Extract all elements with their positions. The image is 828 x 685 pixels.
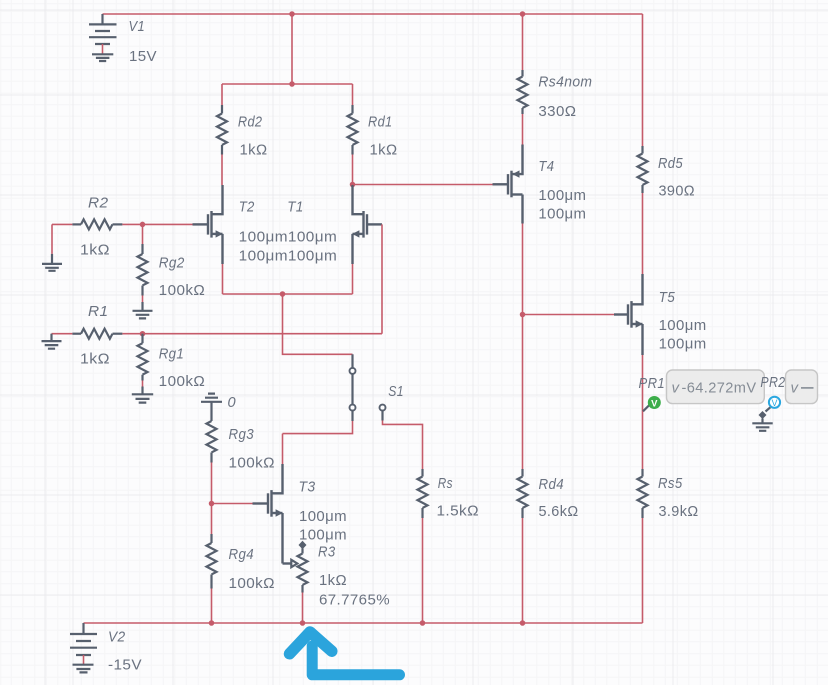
svg-text:PR2: PR2 bbox=[760, 374, 785, 391]
junction Rg3/Rg4/T3 gate bbox=[209, 501, 215, 507]
svg-text:100μm: 100μm bbox=[299, 508, 347, 525]
svg-text:Rd4: Rd4 bbox=[539, 476, 565, 493]
svg-text:100μm: 100μm bbox=[538, 187, 586, 204]
junction bus R3 bbox=[300, 620, 306, 626]
junction R2/Rg2 bbox=[140, 222, 146, 228]
svg-text:-64.272mV: -64.272mV bbox=[682, 380, 757, 397]
voltage source V2 bbox=[70, 623, 97, 665]
svg-text:T3: T3 bbox=[299, 479, 316, 496]
wire T4 drain to Rd4/T5 gate node bbox=[522, 224, 524, 315]
wire to T3 gate bbox=[212, 503, 253, 505]
resistor Rd4 bbox=[518, 315, 528, 624]
wire T1 source to bus bbox=[352, 264, 354, 294]
ground of V1 bbox=[92, 54, 113, 61]
svg-text:100kΩ: 100kΩ bbox=[159, 282, 206, 299]
probe PR1 readout box bbox=[667, 370, 765, 404]
resistor R1 bbox=[52, 329, 143, 339]
resistor Rd1 bbox=[348, 84, 358, 185]
junction bus Rd4 bbox=[520, 620, 526, 626]
wire T5 source to Rs5 bbox=[642, 355, 644, 469]
svg-text:330Ω: 330Ω bbox=[538, 103, 576, 120]
svg-text:v: v bbox=[791, 380, 800, 397]
wire top rail V1 to Rd5 bbox=[103, 13, 643, 15]
svg-text:1kΩ: 1kΩ bbox=[240, 142, 268, 159]
junction bus Rs bbox=[420, 620, 426, 626]
transistor T3 bbox=[253, 434, 283, 564]
wire diff-pair source bus bbox=[223, 293, 353, 295]
resistor R2 bbox=[52, 219, 193, 229]
svg-text:Rd1: Rd1 bbox=[368, 114, 393, 131]
svg-text:T4: T4 bbox=[538, 158, 554, 175]
svg-text:Rg3: Rg3 bbox=[229, 426, 255, 443]
junction at top rail x=522.5 bbox=[520, 11, 526, 17]
resistor Rs bbox=[418, 469, 428, 623]
svg-text:100μm100μm: 100μm100μm bbox=[239, 229, 338, 246]
transistor T4 bbox=[493, 145, 523, 224]
junction source bus bbox=[280, 291, 286, 297]
wire switch throw2 to Rs bbox=[383, 421, 423, 470]
resistor Rg3 bbox=[207, 421, 217, 504]
svg-text:T1: T1 bbox=[287, 199, 304, 216]
svg-text:67.7765%: 67.7765% bbox=[319, 592, 390, 609]
svg-text:R3: R3 bbox=[318, 544, 336, 561]
svg-text:1kΩ: 1kΩ bbox=[370, 142, 398, 159]
svg-text:100μm100μm: 100μm100μm bbox=[239, 248, 338, 265]
svg-text:100μm: 100μm bbox=[659, 317, 707, 334]
potentiometer R3 bbox=[283, 541, 308, 623]
svg-text:Rg1: Rg1 bbox=[159, 346, 185, 363]
svg-text:15V: 15V bbox=[129, 48, 157, 65]
resistor Rd5 bbox=[638, 14, 648, 274]
svg-text:Rg4: Rg4 bbox=[229, 546, 255, 563]
wire source bus to switch bbox=[283, 294, 353, 354]
wire bottom bus bbox=[84, 622, 643, 624]
wire T1 gate drop bbox=[381, 224, 383, 333]
svg-text:Rd2: Rd2 bbox=[238, 114, 263, 131]
transistor T1 bbox=[352, 185, 382, 264]
ground at Rg2 bbox=[133, 302, 153, 318]
svg-text:v: v bbox=[672, 380, 681, 397]
wire switch throw1 to T3 drain bbox=[283, 421, 353, 434]
svg-text:Rg2: Rg2 bbox=[159, 255, 185, 272]
ground of PR2 bbox=[752, 423, 772, 431]
resistor Rd2 bbox=[217, 84, 227, 185]
svg-text:T2: T2 bbox=[239, 199, 255, 216]
resistor Rg1 bbox=[138, 334, 148, 387]
svg-text:100μm: 100μm bbox=[538, 206, 586, 223]
wire R1 node to T1 gate drop bbox=[143, 333, 383, 335]
wire T2 source to bus bbox=[222, 264, 224, 294]
junction R1/Rg1 bbox=[140, 331, 146, 337]
junction Rd1 bottom node bbox=[350, 182, 356, 188]
svg-text:T5: T5 bbox=[659, 289, 676, 306]
svg-text:Rs: Rs bbox=[438, 475, 453, 492]
resistor Rs5 bbox=[638, 469, 648, 623]
svg-text:100μm: 100μm bbox=[299, 527, 347, 544]
ground node 0 above Rg3 bbox=[201, 394, 222, 421]
probe PR2 readout box bbox=[786, 370, 818, 404]
wire R2 to ground bbox=[51, 224, 53, 254]
svg-text:100kΩ: 100kΩ bbox=[159, 373, 206, 390]
transistor T2 bbox=[193, 185, 223, 264]
svg-text:-15V: -15V bbox=[108, 657, 142, 674]
svg-text:3.9kΩ: 3.9kΩ bbox=[659, 503, 699, 520]
probe PR2 bbox=[759, 397, 781, 424]
junction bus Rg4 bbox=[209, 620, 215, 626]
annotation blue arrow bbox=[290, 632, 400, 675]
voltage source V1 bbox=[89, 14, 117, 54]
svg-text:R1: R1 bbox=[88, 303, 109, 320]
wire Rd1 node to T4 gate bbox=[353, 184, 493, 186]
svg-text:5.6kΩ: 5.6kΩ bbox=[539, 503, 579, 520]
svg-text:100kΩ: 100kΩ bbox=[229, 575, 276, 592]
svg-text:V2: V2 bbox=[108, 629, 126, 646]
svg-text:1kΩ: 1kΩ bbox=[80, 351, 110, 368]
junction at top rail x=292 bbox=[289, 11, 295, 17]
resistor Rs4nom bbox=[518, 14, 528, 145]
svg-text:390Ω: 390Ω bbox=[659, 183, 696, 200]
resistor Rg4 bbox=[207, 504, 217, 624]
svg-text:S1: S1 bbox=[388, 383, 404, 400]
wire node to T5 gate bbox=[523, 314, 615, 316]
svg-text:100kΩ: 100kΩ bbox=[229, 455, 276, 472]
junction diff-pair rail bbox=[289, 81, 295, 87]
ground at Rg1 bbox=[132, 387, 153, 403]
svg-text:1.5kΩ: 1.5kΩ bbox=[437, 503, 480, 520]
switch S1 bbox=[350, 354, 386, 421]
junction T4 drain node bbox=[520, 312, 526, 318]
svg-text:Rs4nom: Rs4nom bbox=[538, 73, 592, 90]
wire diff-pair rail bbox=[222, 83, 353, 85]
probe PR1 bbox=[643, 396, 661, 411]
svg-text:Rd5: Rd5 bbox=[658, 155, 683, 172]
ground of V2 bbox=[73, 665, 94, 673]
svg-text:Rs5: Rs5 bbox=[658, 475, 683, 492]
svg-text:100μm: 100μm bbox=[659, 336, 707, 353]
svg-text:1kΩ: 1kΩ bbox=[80, 242, 110, 259]
svg-text:R2: R2 bbox=[88, 195, 109, 212]
svg-text:V: V bbox=[771, 398, 777, 408]
ground at R2 bbox=[42, 254, 62, 271]
svg-text:1kΩ: 1kΩ bbox=[319, 572, 347, 589]
ground at R1 bbox=[42, 334, 62, 349]
svg-text:PR1: PR1 bbox=[639, 375, 666, 392]
svg-text:V1: V1 bbox=[129, 18, 146, 35]
transistor T5 bbox=[614, 274, 643, 355]
svg-text:V: V bbox=[651, 398, 658, 409]
wire drop to diff-pair rail bbox=[291, 14, 293, 84]
svg-text:0: 0 bbox=[228, 394, 237, 411]
resistor Rg2 bbox=[138, 224, 148, 302]
